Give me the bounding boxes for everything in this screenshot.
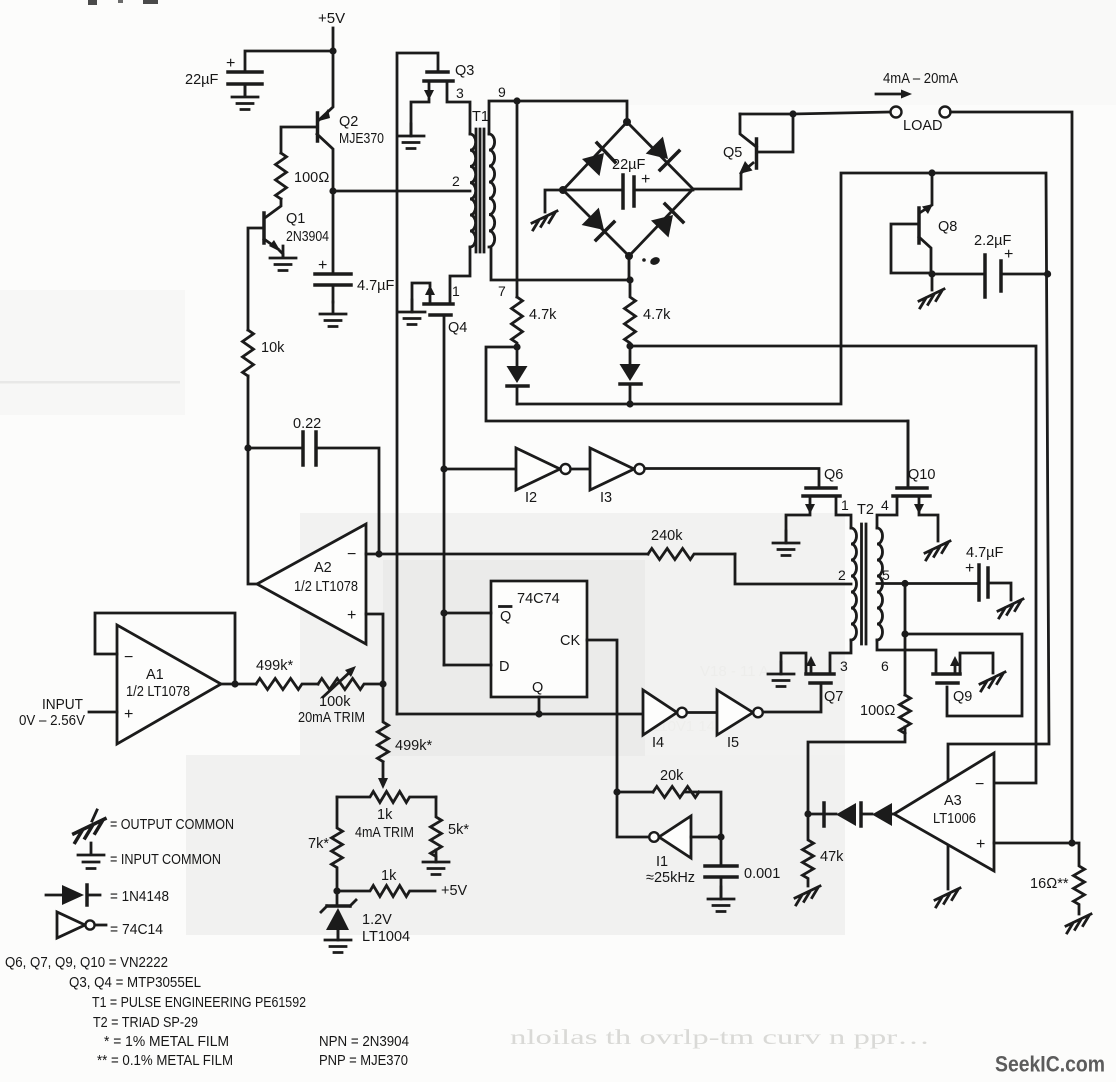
IC 74C74 box (491, 581, 587, 697)
svg-text:3: 3 (456, 85, 464, 101)
svg-text:6: 6 (881, 658, 889, 674)
legend diode 1N4148 symbol (46, 894, 62, 897)
diode bridge bottom-left (582, 208, 604, 230)
wire node A to Q10 gate rail (486, 347, 908, 486)
wire Q9 gate loop (905, 634, 1022, 716)
transistor Q5 (755, 139, 759, 168)
svg-text:499k*: 499k* (256, 658, 293, 674)
ground input common Q7 (768, 662, 794, 687)
svg-text:= OUTPUT COMMON: = OUTPUT COMMON (110, 817, 234, 833)
ground input common below zener (325, 928, 351, 953)
svg-text:+: + (976, 836, 985, 853)
wire Q8 box rail (517, 173, 1049, 889)
diode A3 out first 1N4148 (872, 803, 892, 826)
node I1 input (717, 833, 724, 840)
node 47k diode junction (804, 810, 811, 817)
svg-text:A2: A2 (314, 560, 332, 576)
svg-text:V18 - 11 A: V18 - 11 A (700, 663, 769, 680)
op-amp A1 (117, 625, 221, 744)
op-amp A2 (257, 524, 366, 644)
node Q8 collector top (928, 169, 935, 176)
svg-text:+: + (226, 55, 235, 72)
svg-text:** = 0.1% METAL FILM: ** = 0.1% METAL FILM (97, 1053, 233, 1069)
resistor 499k* (256, 679, 318, 690)
svg-text:+: + (965, 560, 974, 577)
svg-text:100Ω: 100Ω (860, 703, 895, 719)
wire Q output stub (538, 697, 541, 714)
potentiometer 1k 4mA trim (337, 792, 436, 803)
node B below right 4.7k (626, 342, 633, 349)
node 0.22 feedback junction (244, 444, 251, 451)
wire Q10 drain to T2 pin4 (877, 496, 897, 528)
svg-text:LOAD: LOAD (903, 118, 943, 134)
ground input common Q6 (773, 531, 799, 556)
node A2 plus / divider junction (379, 680, 386, 687)
svg-text:74C74: 74C74 (517, 591, 560, 607)
inverter I2 (516, 448, 560, 490)
capacitor 22uF bridge (563, 189, 693, 192)
wire Q4 gate bus to 74C74 (443, 315, 446, 665)
scan gray blotch core (383, 560, 645, 756)
wire I4 to I5 (687, 711, 717, 714)
svg-text:Q: Q (532, 680, 543, 696)
node bridge bottom rail (626, 276, 633, 283)
node Qbar junction (440, 609, 447, 616)
wire to I2 (444, 468, 516, 471)
diode bridge arms (563, 122, 693, 256)
wire I2 to I3 (571, 468, 590, 471)
scan ghost line left (0, 381, 180, 384)
svg-text:16Ω**: 16Ω** (1030, 876, 1069, 892)
svg-text:+: + (1004, 246, 1013, 263)
svg-text:4.7µF: 4.7µF (966, 545, 1004, 561)
svg-text:499k*: 499k* (395, 738, 432, 754)
resistor 240k (648, 549, 735, 560)
svg-text:= 74C14: = 74C14 (110, 922, 163, 938)
capacitor 4.7uF T2 (979, 565, 988, 600)
wire T2 pin3 to Q7 drain (830, 640, 851, 674)
node Q9 gate tap (901, 630, 908, 637)
svg-text:* = 1% METAL FILM: * = 1% METAL FILM (104, 1034, 229, 1050)
transistor Q10 MOSFET (897, 486, 927, 490)
svg-text:Q10: Q10 (908, 467, 935, 483)
wire bridge left to ground (545, 190, 563, 212)
ground output common Q10 (925, 541, 950, 560)
svg-text:Q3: Q3 (455, 63, 474, 79)
ground input common below 4.7uF (320, 302, 346, 327)
wire 10k to A2 output (248, 376, 257, 584)
transistor Q6 MOSFET (806, 486, 836, 490)
wire Q1 base down (248, 228, 264, 330)
ground output common Q8 (919, 289, 944, 308)
transistor Q8 (921, 173, 932, 212)
svg-text:Q8: Q8 (938, 219, 957, 235)
scan gray blotch left (0, 290, 185, 415)
svg-text:LT1006: LT1006 (933, 811, 976, 827)
svg-text:100k: 100k (319, 694, 351, 710)
svg-text:Q5: Q5 (723, 145, 742, 161)
svg-text:PNP = MJE370: PNP = MJE370 (319, 1053, 408, 1069)
diode A3 out second 1N4148 (836, 803, 856, 826)
svg-text:SeekIC.com: SeekIC.com (995, 1052, 1105, 1077)
svg-text:NPN = 2N3904: NPN = 2N3904 (319, 1034, 409, 1050)
resistor 5k* (431, 797, 442, 862)
wire A2 plus input (366, 614, 383, 684)
wire Q6 drain to T2 pin1 (836, 496, 851, 528)
arrow current direction (876, 93, 904, 96)
resistor 47k (803, 814, 814, 886)
wire Q2 base (281, 127, 317, 153)
svg-text:+: + (347, 607, 356, 624)
ground output common 4.7uF (998, 599, 1023, 618)
wire LOAD return bus (951, 112, 1073, 843)
svg-text:= 1N4148: = 1N4148 (110, 889, 169, 905)
node bridge top (623, 118, 631, 126)
wire T1 pin9 (489, 101, 627, 134)
resistor 4.7k right (625, 280, 636, 346)
svg-text:1/2 LT1078: 1/2 LT1078 (294, 579, 358, 595)
svg-text:Q6: Q6 (824, 467, 843, 483)
svg-text:22µF: 22µF (185, 72, 218, 88)
resistor 20k (653, 787, 699, 798)
wire bridge right to Q5 emitter (693, 163, 753, 189)
inverter I1 (659, 816, 691, 858)
ground input common below 5k (423, 850, 449, 875)
ground output common bridge (532, 211, 557, 230)
svg-text:Q1: Q1 (286, 211, 305, 227)
svg-text:5k*: 5k* (448, 822, 469, 838)
wire A3 output (892, 813, 894, 816)
legend ground input common symbol (78, 843, 104, 869)
svg-text:1k: 1k (377, 807, 393, 823)
svg-text:7k*: 7k* (308, 836, 329, 852)
wire down to 4.7uF (332, 191, 335, 273)
svg-text:Q3, Q4 = MTP3055EL: Q3, Q4 = MTP3055EL (69, 975, 201, 991)
zener diode 1.2V LT1004 (336, 891, 339, 906)
resistor 1k to +5V (337, 886, 435, 897)
node Q8 emitter (928, 270, 935, 277)
svg-text:LT1004: LT1004 (362, 929, 410, 945)
svg-text:20mA TRIM: 20mA TRIM (298, 710, 365, 726)
svg-text:T2 = TRIAD SP-29: T2 = TRIAD SP-29 (93, 1015, 198, 1031)
svg-text:20k: 20k (660, 768, 684, 784)
ground input common Q1 emitter (270, 246, 296, 271)
wire to LOAD (793, 112, 890, 114)
ground input common below 22uF (232, 85, 258, 110)
svg-text:Q6, Q7, Q9, Q10 = VN2222: Q6, Q7, Q9, Q10 = VN2222 (5, 955, 168, 971)
svg-text:4.7k: 4.7k (529, 307, 557, 323)
svg-text:nloilas th ovrlp-tm curv n ppr: nloilas th ovrlp-tm curv n ppr… (510, 1025, 930, 1049)
wire Q to I4 input (397, 713, 643, 716)
svg-text:1: 1 (841, 497, 849, 513)
ground input common Q3 source (398, 124, 424, 149)
wire +5V stem (332, 28, 335, 51)
legend inverter 74C14 symbol (57, 912, 85, 938)
potentiometer 100k 20mA trim (318, 679, 383, 690)
wire input to A1 plus (89, 711, 117, 714)
svg-text:1.2V: 1.2V (362, 912, 392, 928)
wire I3 to Q6 gate (645, 469, 819, 489)
node bridge bottom (625, 252, 633, 260)
ground input common 0.001 (708, 887, 734, 912)
capacitor 0.001 (720, 837, 723, 865)
svg-text:9: 9 (498, 84, 506, 100)
svg-text:−: − (975, 776, 984, 793)
inverter I5 (717, 690, 753, 735)
svg-text:100Ω: 100Ω (294, 170, 329, 186)
svg-text:0.001: 0.001 (744, 866, 780, 882)
wire pin2 rail to T1 (333, 190, 470, 193)
svg-text:I5: I5 (727, 735, 739, 751)
inverter I3 (590, 448, 634, 490)
svg-text:CK: CK (560, 633, 580, 649)
svg-text:+: + (641, 171, 650, 188)
wire A2 minus to 240k (366, 553, 648, 556)
wire T1 pin7 (491, 247, 630, 280)
legend ground output common symbol (74, 819, 105, 843)
wire A1 feedback loop (95, 613, 235, 684)
capacitor 4.7uF (315, 274, 351, 285)
svg-text:+: + (318, 257, 327, 274)
svg-text:I2: I2 (525, 490, 537, 506)
wire CK stub down (587, 640, 617, 792)
svg-text:Q2: Q2 (339, 114, 358, 130)
svg-text:Q4: Q4 (448, 320, 467, 336)
svg-text:+5V: +5V (441, 883, 468, 899)
scan gray blotch topright (560, 0, 1116, 105)
svg-text:7: 7 (498, 283, 506, 299)
capacitor 2.2uF (932, 273, 1049, 276)
wire node B to A3 inverting input (630, 346, 1036, 783)
transistor Q4 MOSFET (424, 302, 453, 306)
node pin5 (901, 580, 908, 587)
inverter I4 (643, 690, 677, 735)
resistor 100ohm (900, 695, 911, 733)
wire pin5 down to 100ohm (904, 584, 907, 696)
ground output common 47k (795, 886, 820, 905)
resistor 100ohm (276, 153, 287, 199)
node A2 inverting input (375, 550, 382, 557)
svg-text:= INPUT COMMON: = INPUT COMMON (110, 852, 221, 868)
svg-text:≈25kHz: ≈25kHz (646, 870, 695, 886)
svg-text:5: 5 (882, 567, 890, 583)
svg-text:4mA TRIM: 4mA TRIM (355, 825, 414, 841)
wire I5 to Q7 gate (763, 683, 821, 712)
svg-text:2: 2 (838, 567, 846, 583)
node A below left 4.7k (513, 343, 520, 350)
resistor 499k* vertical (378, 684, 389, 762)
ground output common Q9 (980, 672, 1005, 691)
op-amp A3 (894, 753, 994, 871)
wire Q2 emitter feed (319, 51, 333, 120)
diode bridge bottom-right (651, 215, 673, 238)
transistor Q9 MOSFET (933, 672, 960, 676)
wire 100ohm to diode node (808, 727, 905, 814)
scan gray blotch middle (300, 513, 845, 763)
svg-text:+5V: +5V (318, 10, 345, 27)
svg-text:−: − (347, 546, 356, 563)
svg-text:4: 4 (881, 497, 889, 513)
svg-text:240k: 240k (651, 528, 683, 544)
svg-text:Q9: Q9 (953, 689, 972, 705)
node diode rail (626, 400, 633, 407)
resistor 16ohm (1072, 843, 1085, 914)
svg-text:−: − (124, 649, 133, 666)
svg-text:T2: T2 (857, 502, 874, 518)
node +5V junction (329, 47, 336, 54)
node I1 output (613, 788, 620, 795)
svg-text:0V – 2.56V: 0V – 2.56V (19, 713, 85, 729)
svg-text:D: D (499, 659, 509, 675)
wire A3 plus input (994, 842, 1072, 845)
wire +5V to 22uF (245, 51, 333, 71)
wire I1 input (691, 836, 721, 839)
wire Q10 gate drop (907, 421, 910, 488)
wire Qbar stub (444, 612, 491, 615)
svg-text:T1 = PULSE ENGINEERING PE61592: T1 = PULSE ENGINEERING PE61592 (92, 995, 306, 1011)
wire Q3 gate bus from 74C74 Q (397, 53, 438, 714)
svg-text:4mA – 20mA: 4mA – 20mA (883, 71, 958, 87)
diode bridge top-right (646, 137, 668, 159)
LOAD terminal left (891, 107, 902, 118)
diode bridge top-left (582, 153, 604, 176)
svg-text:+: + (124, 706, 133, 723)
wire to 0.22 (248, 447, 303, 450)
wire D stub (444, 664, 491, 667)
node 2.2uF right (1044, 270, 1051, 277)
node 7k zener junction (333, 887, 340, 894)
svg-text:2N3904: 2N3904 (286, 229, 329, 245)
wire I1 loop (617, 792, 649, 837)
node A3 plus on load bus (1068, 839, 1075, 846)
wire bridge bottom stem (628, 256, 631, 280)
ground input common Q4 source (399, 300, 425, 325)
node Q output (535, 710, 542, 717)
wire Q3 drain to T1 pin3 (447, 81, 470, 134)
svg-text:1/2 LT1078: 1/2 LT1078 (126, 684, 190, 700)
svg-text:1: 1 (452, 283, 460, 299)
wire 20k right down (685, 792, 721, 837)
svg-text:1k: 1k (381, 868, 397, 884)
diode left 1N4148 (516, 347, 519, 366)
scan top edge marks (88, 0, 97, 5)
svg-text:2: 2 (452, 173, 460, 189)
node T1 pin2 junction (329, 187, 336, 194)
resistor 10k (243, 330, 254, 376)
capacitor 0.22 (303, 432, 316, 465)
diode right 1N4148 (629, 346, 632, 364)
wire 20k left (617, 791, 653, 794)
svg-text:I3: I3 (600, 490, 612, 506)
svg-text:MJE370: MJE370 (339, 131, 384, 147)
svg-text:A1: A1 (146, 667, 164, 683)
svg-text:INPUT: INPUT (42, 697, 83, 713)
transistor Q3 MOSFET (427, 70, 448, 74)
scan ink blob (642, 258, 646, 262)
transistor Q2 MJE370 (PNP) (316, 113, 320, 141)
wire T2 pin5 (877, 582, 979, 585)
wire pin9 down to 4.7k (516, 101, 519, 297)
node pin9 junction (513, 97, 520, 104)
wire A1 output (221, 683, 256, 686)
svg-text:Q: Q (500, 609, 511, 625)
capacitor 22uF (228, 72, 262, 84)
svg-text:4.7µF: 4.7µF (357, 278, 395, 294)
ground output common A3 stem (935, 888, 960, 907)
wire 0.22 to A2 inverting input (316, 448, 379, 554)
ground output common 16ohm (1066, 914, 1091, 933)
svg-text:4.7k: 4.7k (643, 307, 671, 323)
scan gray blotch lower-middle (186, 755, 845, 935)
wire T1 pin1 to Q4 drain (450, 247, 470, 304)
svg-text:3: 3 (840, 658, 848, 674)
svg-text:Q7: Q7 (824, 689, 843, 705)
resistor 7k* (332, 797, 343, 891)
svg-text:I4: I4 (652, 735, 664, 751)
node I2 tap on Q4 gate bus (440, 465, 447, 472)
node bridge left (559, 186, 567, 194)
svg-text:A3: A3 (944, 793, 962, 809)
svg-text:0.22: 0.22 (293, 416, 321, 432)
svg-text:47k: 47k (820, 849, 844, 865)
svg-text:T1: T1 (472, 109, 489, 125)
node A1 output (231, 680, 238, 687)
transistor Q1 2N3904 (NPN) (266, 199, 281, 217)
transistor Q7 MOSFET (806, 672, 834, 676)
arrow 499k to trim pot (382, 762, 385, 781)
resistor 4.7k left (512, 297, 523, 347)
wire 240k to T2 pin2 (735, 554, 851, 584)
wire T2 pin6 to Q9 drain (877, 640, 936, 674)
svg-text:I1: I1 (656, 854, 668, 870)
svg-text:10k: 10k (261, 340, 285, 356)
LOAD terminal right (940, 107, 951, 118)
